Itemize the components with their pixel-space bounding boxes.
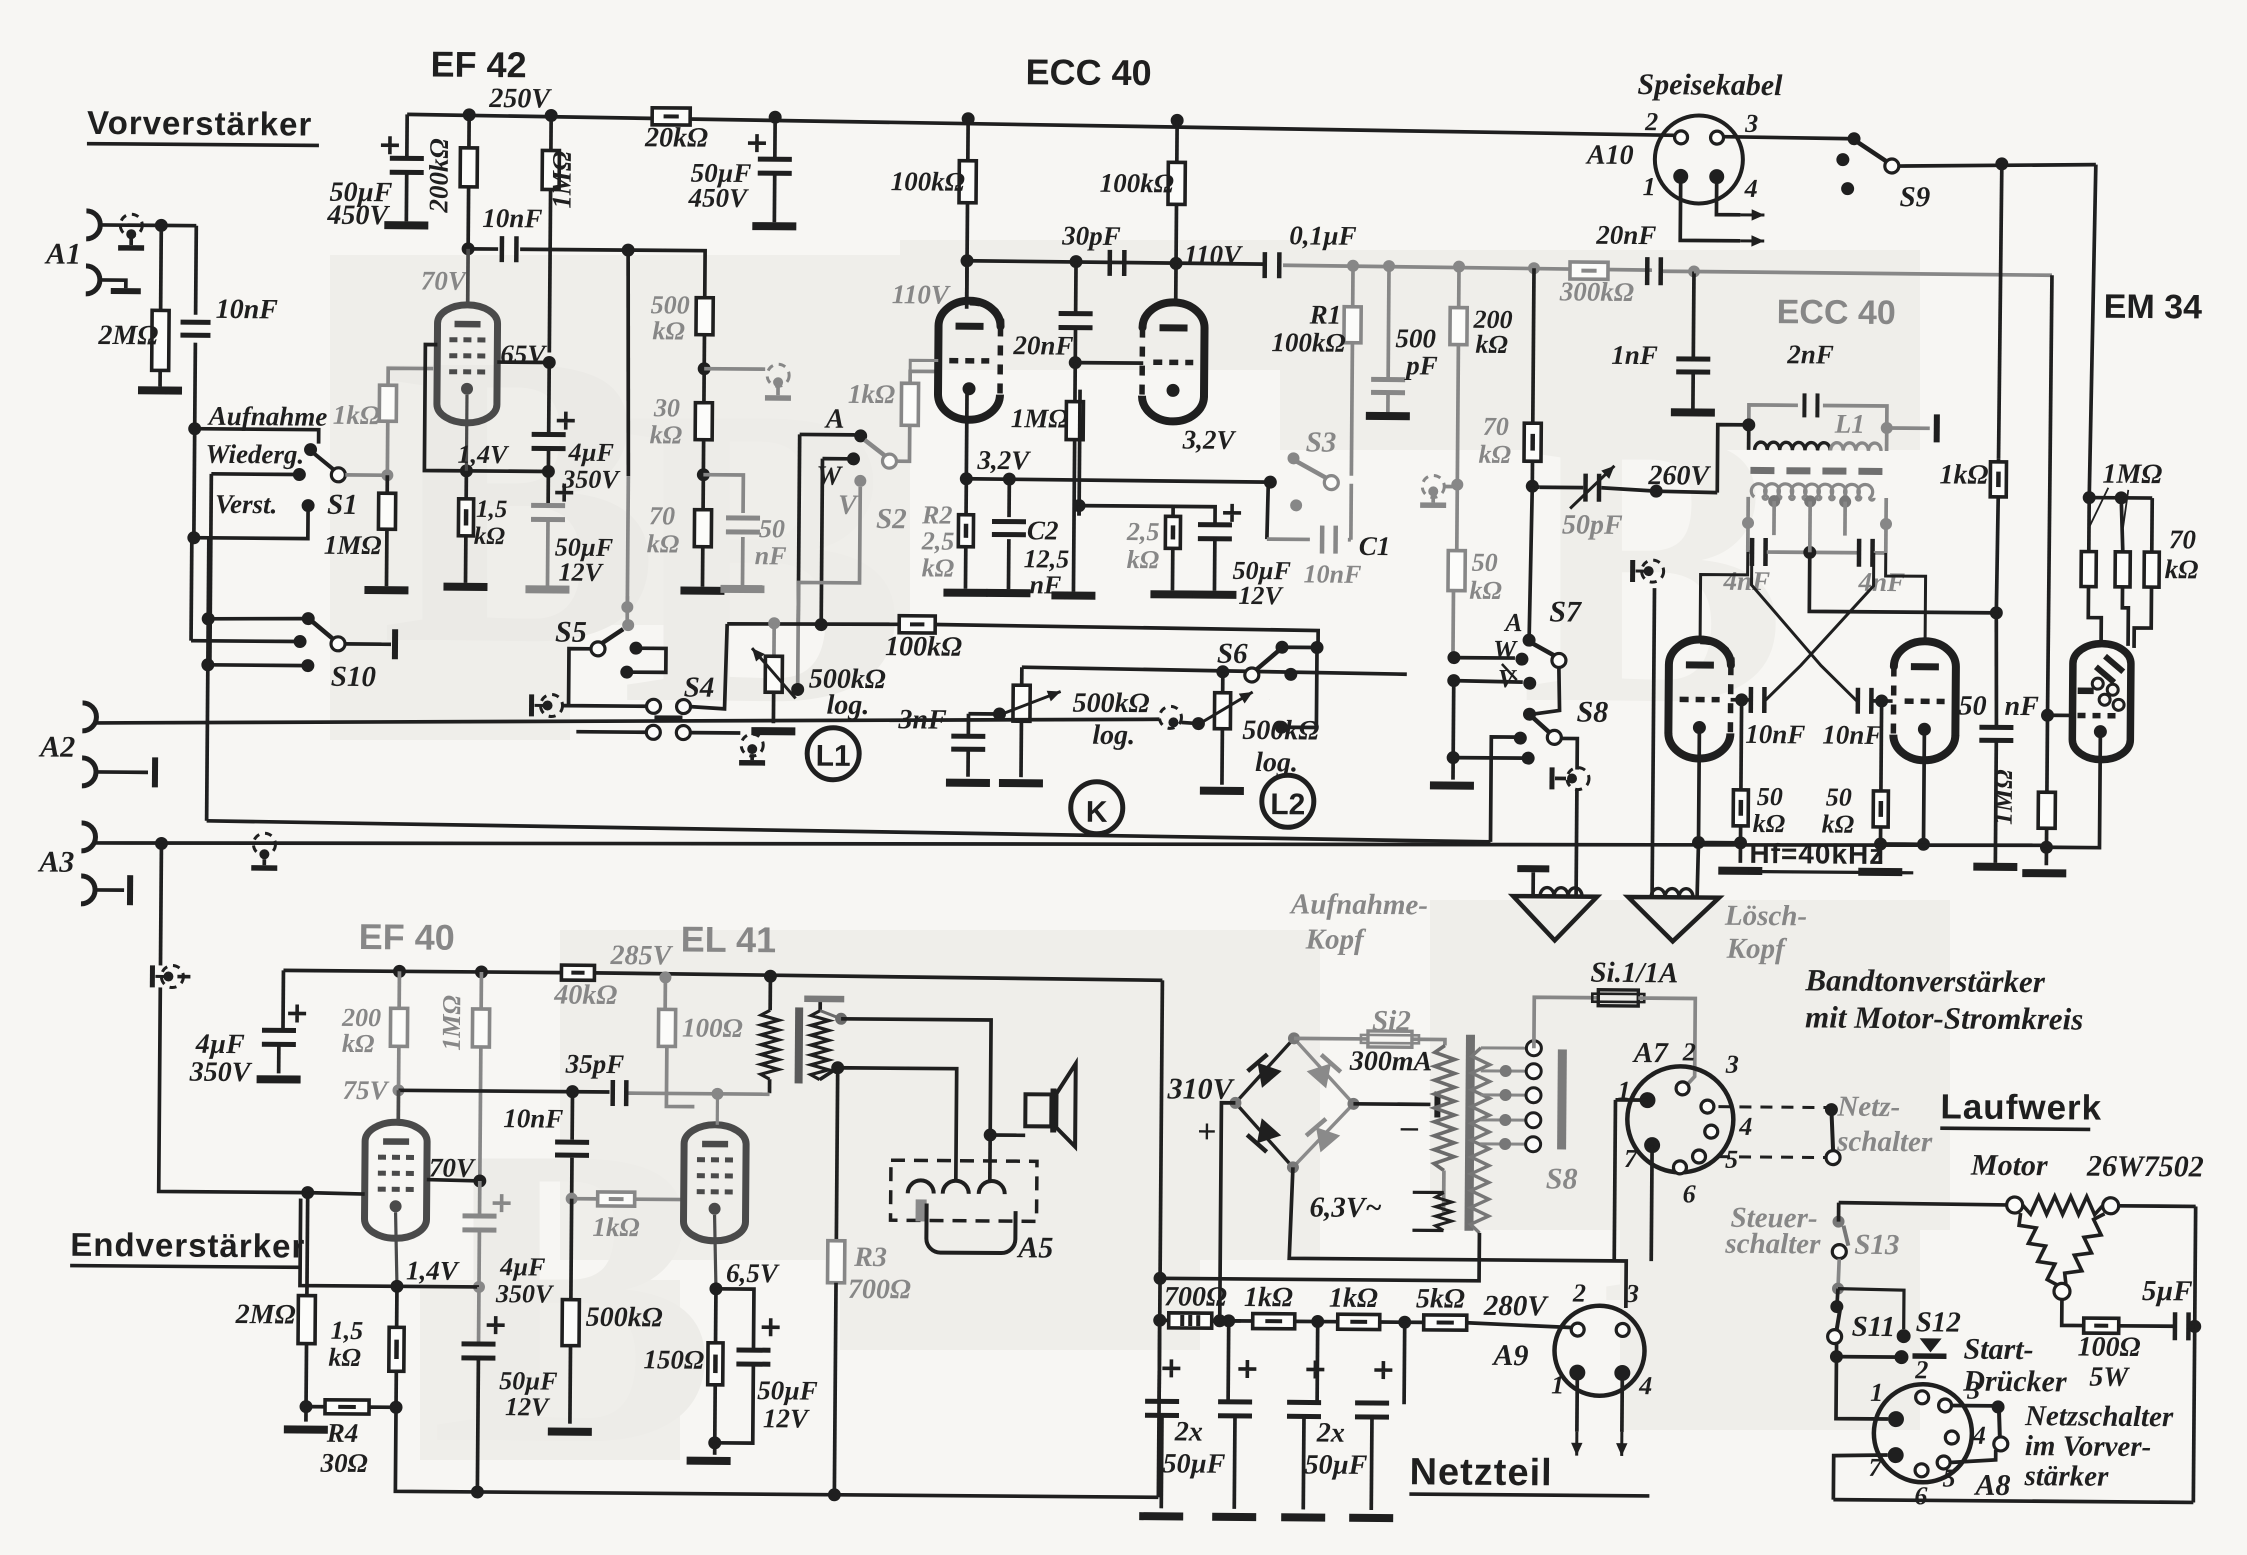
svg-text:450V: 450V: [687, 183, 749, 213]
svg-text:Motor: Motor: [1970, 1149, 2048, 1183]
wire S8 middle contact from bus: [1514, 732, 1527, 745]
svg-text:1,5: 1,5: [476, 496, 507, 523]
svg-text:A9: A9: [1491, 1339, 1528, 1372]
svg-text:100kΩ: 100kΩ: [891, 166, 965, 197]
jack J9 input: [150, 965, 155, 987]
capacitor 0,1uF: [1262, 252, 1267, 278]
svg-text:12V: 12V: [763, 1403, 810, 1433]
svg-text:Vorverstärker: Vorverstärker: [87, 104, 312, 143]
wire A1 column down: [192, 429, 197, 538]
wire tap to S2 (gray): [704, 367, 765, 371]
svg-text:S12: S12: [1916, 1306, 1961, 1338]
resistor 2M EF40 grid: [305, 1193, 310, 1296]
wire top rail 250V: [407, 114, 1675, 135]
wire secondary bottom return: [1160, 1230, 1479, 1281]
svg-text:4: 4: [1972, 1421, 1986, 1450]
svg-text:Netz-: Netz-: [1836, 1091, 1900, 1124]
tube ECC40 triode 1: [938, 301, 1001, 395]
wire 100k line: [727, 623, 899, 625]
resistor R1 100k (gray column): [1351, 266, 1355, 307]
coil L1 primary: [1755, 442, 1831, 450]
svg-text:S11: S11: [1852, 1311, 1896, 1343]
wire secondary to speaker: [840, 1019, 991, 1135]
svg-text:S3: S3: [1306, 426, 1337, 458]
svg-text:6: 6: [1914, 1481, 1927, 1510]
resistor 200k EF40 anode (gray): [397, 971, 401, 1008]
capacitor 5uF motor: [2119, 1324, 2176, 1328]
diode D4: [1306, 1119, 1340, 1153]
svg-text:1MΩ: 1MΩ: [437, 995, 466, 1051]
wire EF42 cathode: [465, 395, 469, 471]
resistor 1M EF40 (gray): [479, 972, 483, 1009]
wire cathode2 down: [1077, 390, 1082, 506]
svg-text:stärker: stärker: [2023, 1460, 2109, 1493]
connector A5 dashed box: [891, 1160, 1037, 1221]
resistor 50k osc right: [1879, 701, 1883, 791]
svg-text:100kΩ: 100kΩ: [1271, 327, 1345, 358]
jack J4: [1630, 560, 1635, 582]
svg-text:Si.1/1A: Si.1/1A: [1590, 957, 1678, 990]
svg-text:kΩ: kΩ: [650, 420, 683, 449]
jack J1 at A1: [120, 214, 142, 236]
svg-text:C1: C1: [1359, 531, 1391, 561]
svg-text:Hf=40kHz: Hf=40kHz: [1749, 838, 1884, 870]
oscillator coil L1 tank top: [1749, 405, 1798, 425]
resistor R4 30 Ohm: [325, 1400, 369, 1414]
wire A10 pin1 arrow: [1680, 183, 1740, 240]
svg-text:V: V: [838, 490, 859, 521]
label K circle: [1071, 782, 1123, 834]
svg-text:100kΩ: 100kΩ: [1100, 168, 1174, 199]
svg-text:3: 3: [1744, 109, 1758, 138]
resistor 200k (gray column): [1457, 267, 1461, 308]
svg-text:3: 3: [1725, 1050, 1739, 1079]
svg-text:12V: 12V: [558, 558, 604, 587]
capacitor 10nF osc right: [1875, 694, 1888, 707]
svg-text:1kΩ: 1kΩ: [592, 1212, 639, 1242]
svg-text:kΩ: kΩ: [1469, 576, 1502, 605]
svg-text:100kΩ: 100kΩ: [885, 631, 962, 663]
capacitor 10nF osc left: [1735, 693, 1748, 706]
wire columns to S10: [189, 543, 193, 641]
wire A1 to coupling cap: [100, 223, 196, 227]
svg-text:nF: nF: [1029, 570, 1061, 599]
resistor 100 Ohm 5W motor: [2062, 1299, 2084, 1325]
tube EF40: [396, 1090, 400, 1122]
svg-text:4: 4: [1638, 1371, 1652, 1400]
switch S1 arm: [310, 451, 336, 472]
svg-text:Endverstärker: Endverstärker: [70, 1226, 305, 1265]
resistor 100k anode 1: [966, 119, 970, 161]
wire 1,4V row: [397, 1284, 479, 1288]
capacitor 20nF interstage: [1074, 262, 1078, 312]
svg-text:A: A: [1503, 608, 1523, 637]
node center taps join: [1803, 546, 1816, 559]
capacitor 4uF 350V: [547, 362, 551, 435]
svg-text:7: 7: [1868, 1453, 1882, 1482]
svg-text:10nF: 10nF: [1745, 719, 1805, 749]
jack J6: [1159, 706, 1181, 728]
wire laufwerk frame right: [2193, 1206, 2195, 1502]
resistor 1k osc: [1997, 459, 2001, 462]
ground EL41 cathode: [713, 1443, 717, 1455]
capacitor 500pF: [1386, 266, 1391, 379]
svg-text:6,5V: 6,5V: [726, 1258, 780, 1288]
resistor 150 Ohm EL41: [714, 1289, 718, 1343]
wire gray bus to right edge: [1694, 271, 2052, 275]
cross wire right cap to left grid: [1751, 552, 1858, 701]
svg-text:50: 50: [1472, 548, 1498, 577]
svg-text:4: 4: [1738, 1112, 1752, 1141]
contact S1-A: [304, 443, 317, 456]
svg-text:schalter: schalter: [1724, 1228, 1821, 1261]
jack J7 on A2 line: [741, 734, 763, 756]
svg-text:2: 2: [1644, 107, 1658, 136]
svg-text:Laufwerk: Laufwerk: [1940, 1087, 2102, 1127]
resistor 20k supply: [652, 108, 690, 125]
capacitor 50uF 12V EF42: [546, 471, 550, 507]
svg-text:50µF: 50µF: [1304, 1449, 1367, 1480]
output transformer: [768, 976, 772, 1010]
resistor 70k EM34 a: [2087, 498, 2091, 552]
tube EM34: [2072, 643, 2131, 759]
wire S9 to right corner: [1899, 163, 2096, 168]
wire 3,2V row to S3: [966, 479, 1268, 482]
wire L1 right to T terminal: [1887, 426, 1930, 430]
svg-text:4nF: 4nF: [1857, 567, 1905, 597]
svg-text:100Ω: 100Ω: [682, 1013, 743, 1043]
svg-text:1,4V: 1,4V: [457, 440, 510, 469]
svg-text:S2: S2: [876, 503, 907, 535]
resistor 1M below S1: [378, 493, 395, 529]
resistor 70k (black right): [1533, 268, 1534, 423]
wire EF40 grid row: [308, 1193, 365, 1194]
svg-text:Netzteil: Netzteil: [1409, 1451, 1552, 1494]
capacitor 50nF osc out: [1995, 613, 1997, 726]
head Loesch-Kopf: [1652, 588, 1654, 897]
wire center tap down to 1k node: [1809, 552, 1996, 612]
wire cathode1 down: [964, 389, 968, 479]
svg-text:1kΩ: 1kΩ: [1939, 459, 1988, 490]
wire EF42 screen to 1M: [497, 360, 549, 364]
svg-text:500kΩ: 500kΩ: [1072, 688, 1149, 720]
ground EM34: [2044, 847, 2048, 865]
svg-text:R4: R4: [326, 1418, 359, 1448]
switch Netzschalter dashed: [1718, 1105, 1828, 1109]
resistor 50k osc left: [1739, 700, 1743, 790]
core dashes: [1750, 467, 1774, 474]
svg-text:L1: L1: [1834, 409, 1865, 439]
svg-text:2,5: 2,5: [1126, 517, 1160, 546]
svg-text:S8: S8: [1576, 696, 1608, 729]
svg-text:Wiederg.: Wiederg.: [205, 439, 304, 470]
label L2 circle: [1262, 775, 1314, 827]
contact S1-W: [293, 468, 306, 481]
svg-text:log.: log.: [1092, 720, 1135, 751]
jack J3 gray at 200k: [1451, 479, 1463, 491]
wire EM34 top feeds: [2083, 491, 2096, 504]
svg-text:5: 5: [1725, 1145, 1738, 1174]
resistor 70k EM34 c: [2150, 498, 2154, 552]
contact S1-V: [302, 499, 315, 512]
wire EF40 cathode: [395, 1212, 398, 1286]
svg-text:B: B: [380, 266, 660, 731]
svg-text:S13: S13: [1854, 1229, 1899, 1261]
wire laufwerk frame bottom: [1833, 1500, 2193, 1503]
wire cathodes to ground: [1699, 728, 1742, 843]
resistor 1M EF42 screen: [549, 115, 553, 150]
svg-text:A: A: [824, 404, 845, 435]
svg-text:10nF: 10nF: [1303, 559, 1361, 588]
tube EF42: [466, 249, 470, 305]
wire after 20nF to 1nF: [1663, 269, 1694, 273]
svg-text:30Ω: 30Ω: [319, 1448, 367, 1478]
connector A8: [1873, 1384, 1972, 1483]
svg-text:450V: 450V: [326, 200, 390, 232]
wire C1/50k node to trimmer: [1532, 486, 1539, 487]
svg-text:A8: A8: [1973, 1469, 2010, 1502]
svg-text:1kΩ: 1kΩ: [333, 400, 380, 430]
wire top tap to fuse Si1: [1534, 997, 1598, 1049]
svg-text:A10: A10: [1585, 140, 1634, 171]
wire EL41 anode to 75V-right row: [716, 1094, 719, 1125]
transformer secondary with taps: [1470, 1048, 1489, 1233]
capacitor 1nF: [1691, 271, 1695, 356]
capacitor 50uF 450V right: [773, 117, 777, 160]
svg-text:nF: nF: [755, 541, 787, 570]
mains transformer primary: [1434, 1045, 1455, 1170]
switch S8 slider: [1557, 1049, 1567, 1149]
svg-text:1: 1: [1551, 1370, 1564, 1399]
svg-text:65V: 65V: [500, 339, 547, 369]
svg-text:1: 1: [1870, 1378, 1883, 1407]
capacitor 20nF to osc: [1645, 257, 1650, 285]
capacitor 50uF 12V stage2: [1173, 506, 1215, 524]
svg-text:S7: S7: [1549, 595, 1582, 628]
svg-text:50: 50: [1826, 783, 1852, 812]
svg-text:300kΩ: 300kΩ: [1559, 276, 1634, 307]
svg-text:20kΩ: 20kΩ: [644, 122, 708, 154]
wire osc cathode to loesch head: [1697, 843, 1698, 898]
svg-text:700Ω: 700Ω: [1164, 1281, 1227, 1312]
svg-text:200kΩ: 200kΩ: [423, 138, 454, 213]
wire Aufnahme row: [188, 422, 201, 435]
cross wire left cap to right grid: [1766, 552, 1874, 701]
svg-text:2x: 2x: [1316, 1418, 1345, 1449]
svg-text:10nF: 10nF: [216, 294, 279, 325]
resistor 2M input: [159, 225, 163, 310]
svg-text:kΩ: kΩ: [342, 1029, 375, 1058]
node L1 right: [1881, 422, 1893, 434]
svg-text:6,3V~: 6,3V~: [1309, 1191, 1381, 1224]
capacitor 4uF 350V EL41 coupling: [478, 1181, 482, 1217]
wire EL41 cathode: [714, 1215, 717, 1289]
wire anode1 into tube: [965, 261, 969, 301]
svg-text:350V: 350V: [561, 465, 621, 494]
wire S1 pivot to 1k (gray): [345, 473, 387, 477]
svg-text:1,5: 1,5: [331, 1316, 364, 1345]
wire S8 pivot to jack and head: [1561, 738, 1577, 769]
svg-text:EM 34: EM 34: [2104, 288, 2203, 327]
svg-text:EF 40: EF 40: [359, 916, 455, 958]
tube EL41: [683, 1125, 746, 1241]
potentiometer 500k log K: [968, 712, 999, 716]
svg-text:1kΩ: 1kΩ: [1244, 1282, 1293, 1313]
jack J10 S8: [1549, 767, 1554, 789]
switch Netzschalter im Vorverstaerker: [1951, 1404, 1995, 1408]
svg-text:2: 2: [1572, 1279, 1586, 1308]
svg-text:2x: 2x: [1174, 1416, 1203, 1447]
svg-text:1MΩ: 1MΩ: [546, 151, 576, 209]
svg-text:Speisekabel: Speisekabel: [1637, 68, 1783, 102]
svg-text:4µF: 4µF: [195, 1029, 245, 1060]
wire EF42 g3 bracket: [424, 345, 549, 472]
svg-text:S9: S9: [1899, 181, 1930, 213]
svg-text:log.: log.: [826, 690, 869, 721]
svg-text:40kΩ: 40kΩ: [553, 980, 617, 1012]
scan tone patches (watermark): [330, 255, 910, 625]
capacitor 50nF divider (gray): [703, 475, 743, 513]
svg-text:kΩ: kΩ: [328, 1343, 361, 1372]
wire S6 lower contact bracket: [1275, 721, 1288, 734]
svg-text:75V: 75V: [342, 1075, 389, 1105]
capacitor 35pF: [610, 1080, 615, 1106]
wire grid1 to 1k: [910, 360, 938, 383]
capacitor 2x50uF c: [1315, 1322, 1319, 1404]
svg-text:310V: 310V: [1166, 1072, 1235, 1106]
svg-text:S8: S8: [1546, 1162, 1578, 1195]
wire A2 lower stub: [96, 770, 148, 774]
svg-text:S5: S5: [555, 616, 587, 649]
resistor R2 2,5k: [964, 479, 968, 515]
svg-text:L2: L2: [1270, 788, 1305, 821]
svg-text:S4: S4: [684, 672, 715, 704]
svg-text:200: 200: [341, 1003, 381, 1032]
svg-text:7: 7: [1624, 1144, 1638, 1173]
svg-text:EF 42: EF 42: [430, 44, 526, 86]
wire EM34 cathode: [2046, 731, 2100, 847]
svg-text:500: 500: [651, 290, 690, 319]
svg-text:S10: S10: [331, 661, 376, 693]
svg-text:26W7502: 26W7502: [2086, 1150, 2204, 1184]
capacitor C2 12,5nF: [1007, 479, 1011, 517]
resistor 300k in gray bus: [1570, 262, 1608, 279]
svg-text:log.: log.: [1255, 747, 1298, 778]
svg-text:1,4V: 1,4V: [406, 1255, 460, 1285]
resistor 100k anode 2: [1175, 120, 1179, 162]
svg-text:3,2V: 3,2V: [976, 445, 1031, 475]
wire frame to A8 pin7: [1833, 1455, 1887, 1500]
wire anode2 into tube: [1174, 263, 1178, 302]
capacitor 10nF input coupling: [194, 226, 198, 315]
svg-text:30: 30: [653, 393, 680, 422]
wire 200k column S7: [1529, 486, 1532, 640]
svg-text:100Ω: 100Ω: [2077, 1332, 2140, 1363]
secondary box gray: [1746, 523, 1750, 552]
resistor 1,5k EF40: [395, 1286, 399, 1327]
svg-text:350V: 350V: [189, 1057, 253, 1089]
svg-text:285V: 285V: [609, 940, 673, 972]
svg-text:–: –: [1400, 1108, 1418, 1145]
svg-text:1MΩ: 1MΩ: [324, 530, 382, 560]
svg-text:schalter: schalter: [1836, 1126, 1933, 1159]
svg-text:EL 41: EL 41: [681, 919, 777, 961]
svg-text:10nF: 10nF: [1822, 719, 1882, 749]
resistor 70k EM34 b: [2121, 498, 2123, 552]
svg-text:1kΩ: 1kΩ: [848, 379, 895, 409]
resistor 500k EL41 grid: [569, 1199, 573, 1300]
svg-text:2: 2: [1682, 1037, 1696, 1066]
resistor chain 280V row: [1160, 1318, 1169, 1322]
resistor 100 Ohm screen: [663, 977, 667, 1009]
svg-text:R2: R2: [921, 500, 953, 529]
capacitor 50uF 12V EF40: [477, 1287, 481, 1345]
wire S7 pivot down to S8 contact: [1533, 667, 1560, 714]
svg-text:W: W: [816, 461, 843, 492]
svg-text:ECC 40: ECC 40: [1777, 293, 1896, 332]
svg-text:0,1µF: 0,1µF: [1289, 220, 1357, 251]
capacitor 2x50uF d: [1402, 1322, 1406, 1404]
secondary taps: [1768, 495, 1780, 507]
svg-text:350V: 350V: [495, 1279, 555, 1308]
jack J5: [529, 694, 534, 716]
wire S11 down to A8 pin1: [1836, 1357, 1888, 1419]
potentiometer 500k log L2: [1192, 717, 1205, 730]
oscillator triode left: [1668, 639, 1731, 733]
svg-text:50: 50: [1757, 782, 1783, 811]
diode D3: [1247, 1118, 1281, 1152]
svg-text:70: 70: [1483, 412, 1509, 441]
ground under 1M: [364, 586, 408, 594]
svg-text:S6: S6: [1217, 638, 1248, 670]
wire A2 line: [82, 703, 96, 731]
svg-text:pF: pF: [1404, 350, 1438, 380]
wire 310V col: [1220, 1103, 1236, 1321]
svg-text:kΩ: kΩ: [1475, 330, 1508, 359]
svg-text:150Ω: 150Ω: [643, 1344, 704, 1374]
svg-text:A5: A5: [1016, 1231, 1053, 1264]
svg-text:10nF: 10nF: [482, 203, 542, 233]
switch S9: [1847, 132, 1860, 145]
svg-text:Bandtonverstärker: Bandtonverstärker: [1804, 962, 2046, 999]
svg-text:C2: C2: [1027, 515, 1059, 545]
jack J2 gray: [767, 364, 789, 386]
resistor 1k EL41 grid (gray): [598, 1192, 635, 1206]
wire A3 lower stub: [95, 888, 124, 892]
wire 10nF junction down to S5: [626, 250, 630, 476]
svg-text:Kopf: Kopf: [1726, 933, 1789, 965]
svg-text:110V: 110V: [1184, 239, 1243, 269]
svg-text:4: 4: [1744, 174, 1758, 203]
svg-text:nF: nF: [2004, 691, 2039, 722]
capacitor 2x50uF b: [1220, 1319, 1241, 1323]
svg-text:20nF: 20nF: [1595, 220, 1656, 250]
svg-text:50µF: 50µF: [757, 1375, 818, 1405]
svg-text:K: K: [1086, 796, 1108, 829]
svg-text:12,5: 12,5: [1024, 544, 1070, 573]
capacitor 50uF 12V EL41: [715, 1289, 753, 1351]
oscillator triode right: [1893, 641, 1956, 735]
svg-text:50µF: 50µF: [1162, 1448, 1225, 1479]
svg-text:kΩ: kΩ: [474, 523, 506, 550]
svg-text:35pF: 35pF: [565, 1049, 625, 1079]
capacitor 50uF 450V left: [405, 114, 409, 159]
switch S2 arm gray: [865, 440, 886, 456]
svg-text:50: 50: [1958, 691, 1986, 722]
svg-text:10nF: 10nF: [503, 1103, 563, 1133]
connector A9: [1554, 1305, 1645, 1396]
wire A1 lower stub: [100, 280, 126, 288]
